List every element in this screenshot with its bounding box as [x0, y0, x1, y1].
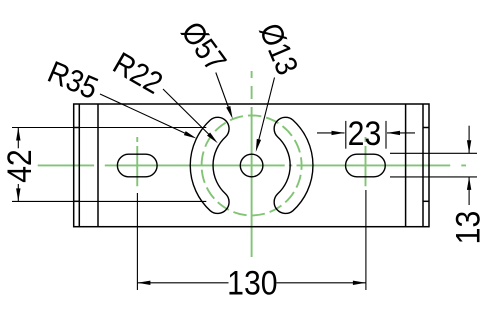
svg-text:13: 13 [449, 211, 487, 245]
svg-text:130: 130 [227, 264, 277, 302]
svg-text:23: 23 [348, 115, 382, 153]
svg-text:42: 42 [0, 149, 38, 183]
